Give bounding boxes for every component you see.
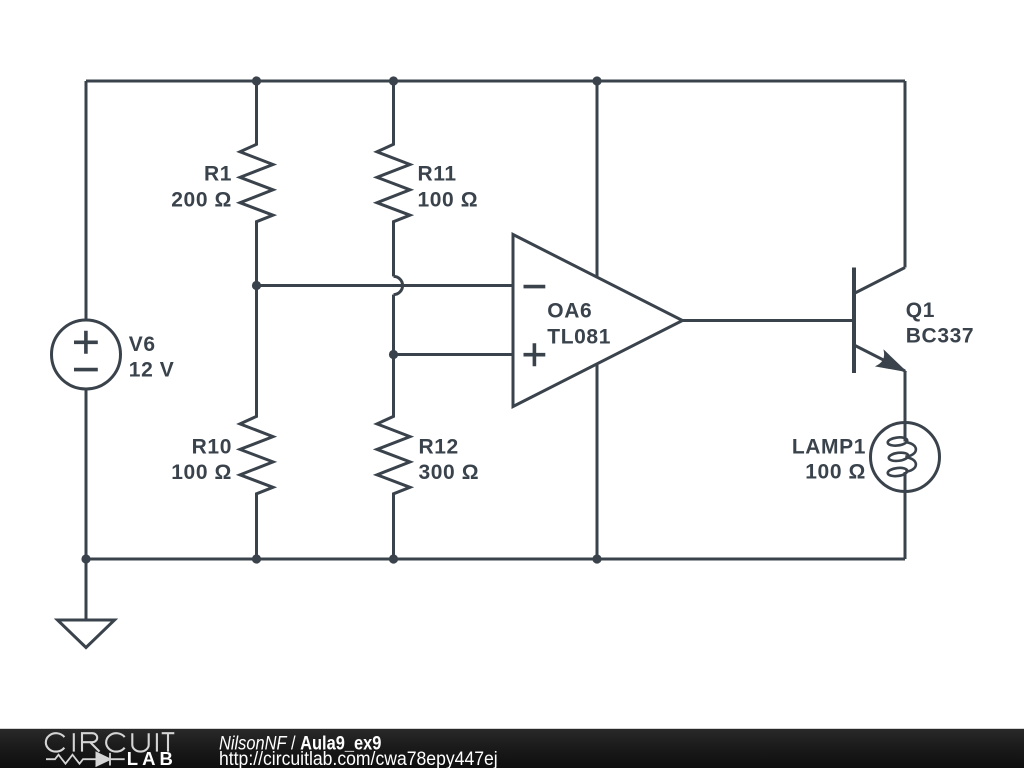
wire op-amp output bbox=[682, 319, 854, 322]
junction top rail / R11 bbox=[389, 76, 398, 85]
footer url text bbox=[219, 747, 498, 768]
junction bottom rail / R12 bbox=[389, 554, 398, 563]
wire op-amp supply vertical bbox=[596, 81, 599, 559]
resistor R1 bbox=[240, 81, 273, 286]
svg-text:LAMP1: LAMP1 bbox=[792, 435, 866, 458]
transistor Q1 emitter arrow bbox=[877, 351, 905, 371]
svg-text:TL081: TL081 bbox=[547, 325, 611, 348]
junction bottom rail / op-amp supply bbox=[592, 554, 601, 563]
svg-text:LAB: LAB bbox=[127, 748, 177, 768]
svg-text:12 V: 12 V bbox=[129, 359, 175, 382]
svg-text:100 Ω: 100 Ω bbox=[171, 461, 232, 484]
transistor Q1 collector lead bbox=[854, 268, 905, 294]
op-amp minus symbol bbox=[524, 285, 546, 289]
footer bar bbox=[0, 729, 1024, 768]
footer logo mini schematic bbox=[46, 753, 125, 766]
svg-text:R1: R1 bbox=[204, 163, 232, 186]
transistor Q1 emitter lead bbox=[854, 345, 905, 371]
junction top rail / op-amp supply bbox=[592, 76, 601, 85]
op-amp plus symbol bbox=[524, 343, 546, 366]
footer logo CIRCUIT lettering bbox=[46, 733, 174, 751]
svg-text:R12: R12 bbox=[419, 435, 459, 458]
wire hop over minus input wire bbox=[394, 276, 403, 294]
op-amp OA6 body bbox=[513, 235, 683, 407]
svg-text:R10: R10 bbox=[192, 435, 232, 458]
svg-text:http://circuitlab.com/cwa78epy: http://circuitlab.com/cwa78epy447ej bbox=[219, 747, 498, 768]
svg-text:OA6: OA6 bbox=[547, 300, 592, 323]
wire left drop from top rail to V6 bbox=[85, 81, 88, 321]
svg-text:Q1: Q1 bbox=[906, 299, 935, 322]
wire Q1 emitter to LAMP1 bbox=[904, 371, 907, 423]
voltage source V6 body bbox=[52, 320, 121, 389]
wire minus input bbox=[257, 284, 513, 287]
wire right drop to Q1 collector bbox=[904, 81, 907, 268]
lamp LAMP1 body bbox=[871, 423, 940, 560]
svg-text:200 Ω: 200 Ω bbox=[171, 189, 232, 212]
junction top rail / R1 bbox=[252, 76, 261, 85]
svg-text:300 Ω: 300 Ω bbox=[419, 461, 480, 484]
svg-text:V6: V6 bbox=[129, 333, 156, 356]
resistor R10 bbox=[240, 286, 273, 560]
junction bottom rail / R10 bbox=[252, 554, 261, 563]
wire V6 bottom to ground bbox=[85, 389, 88, 620]
wire top rail bbox=[86, 80, 905, 83]
resistor R12 bbox=[377, 295, 410, 559]
ground bbox=[58, 620, 115, 648]
svg-text:R11: R11 bbox=[418, 163, 457, 186]
transistor Q1 base bar bbox=[852, 268, 856, 374]
svg-text:100 Ω: 100 Ω bbox=[805, 461, 866, 484]
junction node R11-R12 plus input bbox=[389, 350, 398, 359]
junction node R1-R10 minus input bbox=[252, 281, 261, 290]
wire bottom rail bbox=[86, 558, 905, 561]
svg-text:100 Ω: 100 Ω bbox=[418, 189, 479, 212]
resistor R11 bbox=[377, 81, 410, 276]
footer title text bbox=[219, 732, 381, 754]
junction bottom rail / ground bbox=[81, 554, 90, 563]
wire plus input bbox=[394, 353, 513, 356]
voltage source V6 plus minus marks bbox=[74, 331, 98, 370]
svg-text:BC337: BC337 bbox=[906, 325, 974, 348]
